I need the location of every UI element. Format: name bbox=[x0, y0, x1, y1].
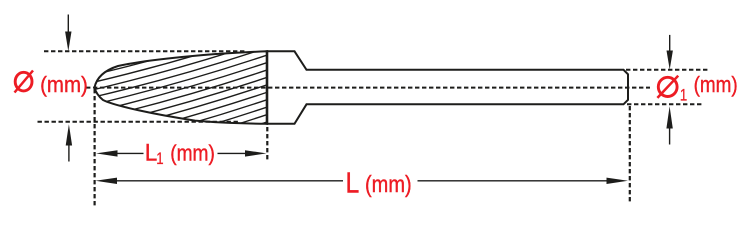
svg-text:(mm): (mm) bbox=[694, 73, 738, 98]
svg-text:(mm): (mm) bbox=[365, 171, 412, 198]
svg-text:L: L bbox=[346, 167, 360, 199]
svg-text:(mm): (mm) bbox=[40, 72, 88, 97]
svg-text:1: 1 bbox=[156, 149, 163, 168]
svg-text:(mm): (mm) bbox=[170, 141, 215, 166]
svg-text:1: 1 bbox=[680, 86, 687, 105]
